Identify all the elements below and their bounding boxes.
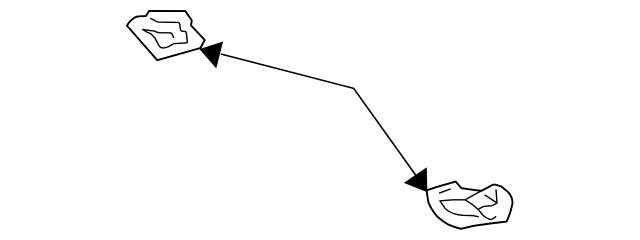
part 2 inner panel [440,191,496,220]
part 1 inner plate and swoosh detail [143,18,188,48]
part 1 outer outline (upper-left bracket) [127,11,205,60]
part 2 inner dash (top-left) [439,189,451,193]
leader line from arrowhead A, bend, to arrowhead B [221,54,427,190]
arrowhead B (at part 2) [405,168,427,191]
arrowhead A (at part 1) [200,42,222,67]
part 2 inner ridge line from junction up to V vertex [478,203,497,210]
part 2 outer outline (lower-right bracket) [427,182,513,229]
part 2 inner V mark (top-right) [485,190,497,203]
